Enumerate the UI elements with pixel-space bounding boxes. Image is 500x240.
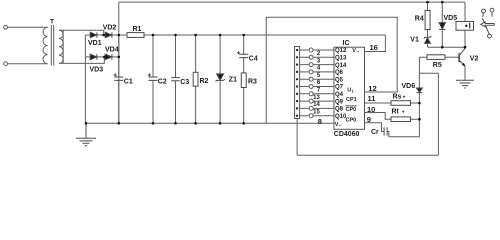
transformer T secondary winding <box>59 30 63 63</box>
svg-text:IC: IC <box>343 40 350 47</box>
diode VD6 <box>416 88 422 92</box>
wire ground rail <box>86 122 334 124</box>
wire collector node line <box>428 46 465 48</box>
svg-text:V1: V1 <box>410 37 419 44</box>
transformer T primary winding <box>43 27 48 63</box>
svg-text:C3: C3 <box>180 79 189 86</box>
capacitor C2 branch wires <box>152 35 154 123</box>
wire node line to bottom riser <box>419 73 438 155</box>
capacitor C1 branch wires <box>118 35 120 123</box>
relay contact B stub <box>491 12 493 17</box>
resistor R3 <box>241 73 246 88</box>
switch block bar <box>295 47 300 119</box>
wire IC pin16 to +V rail <box>365 35 386 52</box>
svg-text:CP1: CP1 <box>346 97 357 103</box>
IC internal labels <box>335 48 347 120</box>
svg-text:VD1: VD1 <box>88 40 102 47</box>
transformer T core <box>51 25 53 66</box>
wire VD5 branch <box>441 2 443 47</box>
svg-text:Q14: Q14 <box>335 63 347 69</box>
wire secondary top lead <box>59 30 104 35</box>
wire top supply rail <box>119 1 465 3</box>
svg-text:VD2: VD2 <box>103 25 117 32</box>
wire timing bus <box>418 103 420 119</box>
wire IC pin10 to Rt <box>365 113 420 120</box>
svg-text:C4: C4 <box>249 56 258 63</box>
svg-text:..: .. <box>339 122 342 128</box>
resistor R2 branch wires <box>195 35 197 123</box>
svg-text:16: 16 <box>370 43 378 52</box>
wire emitter to ground <box>464 66 466 80</box>
svg-text:1: 1 <box>352 89 355 94</box>
wire bridge left vertical to ground <box>84 35 86 123</box>
svg-text:VD5: VD5 <box>444 15 458 22</box>
diode VD3 <box>90 54 97 60</box>
svg-text:R1: R1 <box>133 26 142 33</box>
svg-text:Q6: Q6 <box>335 70 344 76</box>
wire relay feed <box>464 2 466 49</box>
svg-text:Rt: Rt <box>392 108 400 115</box>
svg-text:VD3: VD3 <box>90 67 104 74</box>
svg-text:Q12: Q12 <box>335 48 347 54</box>
wire Cr right loop to timing bus <box>387 119 419 137</box>
svg-text:R3: R3 <box>248 79 257 86</box>
svg-text:Q9: Q9 <box>335 99 344 105</box>
wire IC pin12 <box>365 91 398 93</box>
svg-text:Q5: Q5 <box>335 77 344 83</box>
wire primary top lead <box>8 26 48 28</box>
svg-text:CD4060: CD4060 <box>334 131 360 138</box>
wire primary bottom lead <box>8 63 48 65</box>
diode VD1 <box>90 32 97 38</box>
svg-text:C2: C2 <box>158 79 167 86</box>
svg-text:Cr: Cr <box>371 129 379 136</box>
svg-text:Rs: Rs <box>393 94 402 101</box>
IC CD4060 box <box>334 47 365 129</box>
transistor V2 collector <box>460 49 465 55</box>
svg-text:12: 12 <box>368 84 376 93</box>
relay coil J <box>456 22 474 31</box>
wire bridge right vertical / rectifier + output <box>118 2 120 123</box>
wire bottom rail <box>297 154 438 156</box>
switch pin numbers <box>313 51 321 115</box>
transistor V2 emitter <box>460 61 465 67</box>
relay contact A stub <box>482 13 485 17</box>
capacitor C3 branch wires <box>175 35 177 123</box>
svg-text:6: 6 <box>317 80 321 86</box>
ground emitter <box>456 80 474 88</box>
Rs select mark <box>403 96 405 99</box>
wire V1 bottom <box>427 43 429 47</box>
svg-text:4: 4 <box>317 66 321 72</box>
capacitor C4 plus mark <box>237 51 240 54</box>
transistor V2 emitter arrow <box>462 63 466 67</box>
svg-text:R2: R2 <box>200 78 209 85</box>
wire reset rail (pin12 to ground) <box>266 17 397 123</box>
wire R4 top <box>427 2 429 10</box>
wire VD6 branch <box>418 73 420 103</box>
wire IC pin11 to Rs <box>365 102 420 104</box>
svg-text:Q4: Q4 <box>335 92 344 98</box>
relay actuate arrow <box>481 22 495 27</box>
terminal top-left <box>4 25 8 29</box>
capacitor C3 <box>171 78 179 81</box>
svg-text:2: 2 <box>317 51 321 57</box>
capacitor C4 / resistor R3 branch wires <box>243 35 245 123</box>
diode VD4 <box>105 54 112 60</box>
wire R5 left leg <box>419 57 427 73</box>
svg-text:3: 3 <box>317 58 321 64</box>
zener Z1 branch wires <box>219 35 221 123</box>
wire bridge top row <box>85 34 118 36</box>
capacitor C1 plus mark <box>114 73 117 76</box>
capacitor C2 <box>149 77 158 80</box>
svg-text:10: 10 <box>367 105 375 114</box>
relay contact circle B <box>490 8 494 12</box>
resistor R1 <box>127 33 144 38</box>
svg-text:14: 14 <box>313 102 320 108</box>
resistor Rs <box>391 101 411 106</box>
IC pin numbers right side <box>318 43 378 126</box>
relay contact circle A <box>482 9 486 13</box>
resistor R4 <box>425 10 430 29</box>
wire R5 to base <box>445 56 459 58</box>
svg-text:11: 11 <box>368 94 376 103</box>
svg-text:R4: R4 <box>415 16 424 23</box>
svg-text:Q13: Q13 <box>335 56 347 62</box>
ground main <box>85 123 87 138</box>
svg-text:8: 8 <box>318 117 322 126</box>
relay contact common circle <box>488 34 492 38</box>
capacitor Cr <box>384 127 387 135</box>
svg-text:CP0: CP0 <box>346 107 357 113</box>
svg-text:T: T <box>50 19 54 26</box>
switch rows wires and contacts <box>300 48 334 118</box>
resistor R5 <box>427 55 445 60</box>
svg-text:..: .. <box>357 48 360 54</box>
relay contact arm <box>482 18 489 34</box>
wire main +V rail <box>119 34 386 36</box>
svg-text:Z1: Z1 <box>229 77 237 84</box>
capacitor C2 plus mark <box>148 73 151 76</box>
svg-text:7: 7 <box>317 88 321 94</box>
svg-text:CP0: CP0 <box>346 117 357 123</box>
svg-text:9: 9 <box>367 115 371 124</box>
Rt select mark <box>402 111 404 114</box>
svg-text:15: 15 <box>313 109 320 115</box>
svg-text:V2: V2 <box>470 56 479 63</box>
svg-text:C1: C1 <box>124 79 133 86</box>
capacitor C4 <box>239 54 248 57</box>
diode VD5 <box>439 23 445 29</box>
resistor R2 <box>193 72 198 86</box>
terminal bottom-left <box>4 62 8 66</box>
wire secondary bottom lead <box>59 57 104 64</box>
diode VD2 <box>105 32 112 38</box>
zener V1 <box>424 36 431 38</box>
transformer secondary right edge <box>62 30 64 63</box>
capacitor C1 <box>114 77 123 80</box>
svg-text:VD4: VD4 <box>105 47 119 54</box>
overline mark <box>346 105 357 107</box>
svg-text:Q8: Q8 <box>335 107 344 113</box>
wire switch common riser <box>296 119 298 156</box>
wire bridge bottom row <box>85 56 118 58</box>
svg-text:R5: R5 <box>433 62 442 69</box>
wire R4 to V1 <box>427 30 429 37</box>
svg-text:Q7: Q7 <box>335 85 344 91</box>
zener Z1 <box>217 74 224 80</box>
svg-text:5: 5 <box>317 73 321 79</box>
svg-text:VD6: VD6 <box>402 83 416 90</box>
svg-text:13: 13 <box>313 95 320 101</box>
resistor Rt <box>391 117 411 122</box>
transistor V2 base bar <box>458 53 460 62</box>
wire IC pin9 to Cr <box>365 123 384 132</box>
